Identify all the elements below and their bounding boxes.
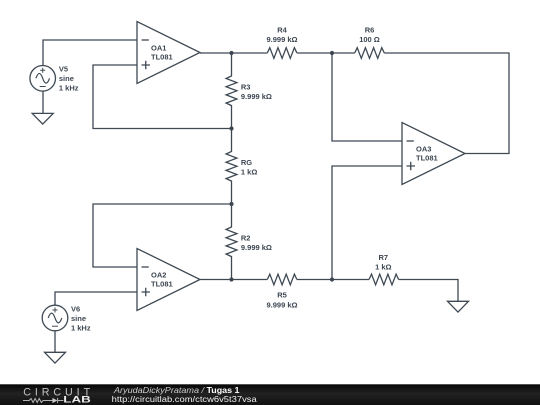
- op-amp OA3: [402, 123, 465, 185]
- node dot OA2 out: [229, 277, 233, 281]
- svg-text:TL081: TL081: [151, 280, 173, 289]
- svg-text:V5: V5: [59, 65, 68, 74]
- logo doodle resistor: [23, 399, 52, 403]
- wire V6 to OA2 plus: [55, 292, 137, 305]
- resistor R2: [226, 204, 237, 280]
- wire V6 to ground: [54, 331, 56, 353]
- svg-text:sine: sine: [71, 314, 86, 323]
- resistor RG: [226, 129, 237, 205]
- wire OA2 minus feedback: [93, 204, 232, 267]
- svg-text:9.999 kΩ: 9.999 kΩ: [266, 35, 297, 44]
- svg-text:R4: R4: [277, 26, 287, 35]
- op-amp OA2: [137, 249, 200, 311]
- node dot R4/R6: [330, 51, 334, 55]
- ground (R7): [448, 301, 469, 312]
- node dot R5/R7: [330, 277, 334, 281]
- svg-text:http://circuitlab.com/ctcw6v5t: http://circuitlab.com/ctcw6v5t37vsa: [112, 394, 257, 404]
- svg-text:R6: R6: [365, 26, 375, 35]
- node dot OA1 out: [229, 51, 233, 55]
- svg-text:LAB: LAB: [63, 395, 91, 405]
- wire OA2 output: [200, 279, 267, 281]
- wire V5 to ground: [42, 91, 44, 113]
- ground (V6): [45, 352, 66, 363]
- svg-text:1 kΩ: 1 kΩ: [375, 262, 391, 271]
- op-amp OA1: [137, 22, 200, 84]
- svg-text:100 Ω: 100 Ω: [359, 35, 380, 44]
- voltage source V6: [42, 305, 68, 331]
- ground (V5): [32, 113, 53, 124]
- wire R7 to ground: [399, 280, 458, 302]
- resistor R4: [267, 48, 297, 59]
- svg-text:9.999 kΩ: 9.999 kΩ: [241, 92, 272, 101]
- svg-text:9.999 kΩ: 9.999 kΩ: [241, 243, 272, 252]
- svg-text:V6: V6: [71, 304, 80, 313]
- voltage source V5: [30, 66, 56, 92]
- node dot RG/R2: [229, 202, 233, 206]
- svg-text:R5: R5: [277, 290, 287, 299]
- wire node to OA3 minus: [332, 53, 402, 141]
- node dot R3/RG: [229, 126, 233, 130]
- wire OA1 plus feedback: [93, 65, 232, 129]
- resistor R7: [369, 274, 399, 285]
- node OA1 output: [200, 52, 267, 54]
- resistor R5: [267, 274, 297, 285]
- wire OA3 plus down to R5 node: [332, 166, 402, 280]
- svg-text:TL081: TL081: [416, 154, 438, 163]
- svg-text:OA2: OA2: [151, 271, 166, 280]
- wire R4 to node: [297, 52, 355, 54]
- svg-text:R3: R3: [241, 83, 251, 92]
- wire R6 to OA3 output: [384, 53, 509, 154]
- svg-text:TL081: TL081: [151, 53, 173, 62]
- svg-text:1 kΩ: 1 kΩ: [241, 167, 257, 176]
- svg-text:RG: RG: [241, 158, 252, 167]
- svg-text:9.999 kΩ: 9.999 kΩ: [266, 300, 297, 309]
- wire V5 to OA1 minus input: [43, 40, 137, 66]
- svg-text:1 kHz: 1 kHz: [71, 323, 91, 332]
- svg-text:1 kHz: 1 kHz: [59, 84, 79, 93]
- svg-text:sine: sine: [59, 74, 74, 83]
- svg-text:OA1: OA1: [151, 44, 166, 53]
- resistor R3: [226, 53, 237, 129]
- wire R5 to node: [297, 279, 369, 281]
- svg-text:R2: R2: [241, 234, 251, 243]
- logo doodle diode: [52, 398, 57, 403]
- svg-text:R7: R7: [379, 253, 389, 262]
- svg-text:OA3: OA3: [416, 145, 431, 154]
- resistor R6: [355, 48, 385, 59]
